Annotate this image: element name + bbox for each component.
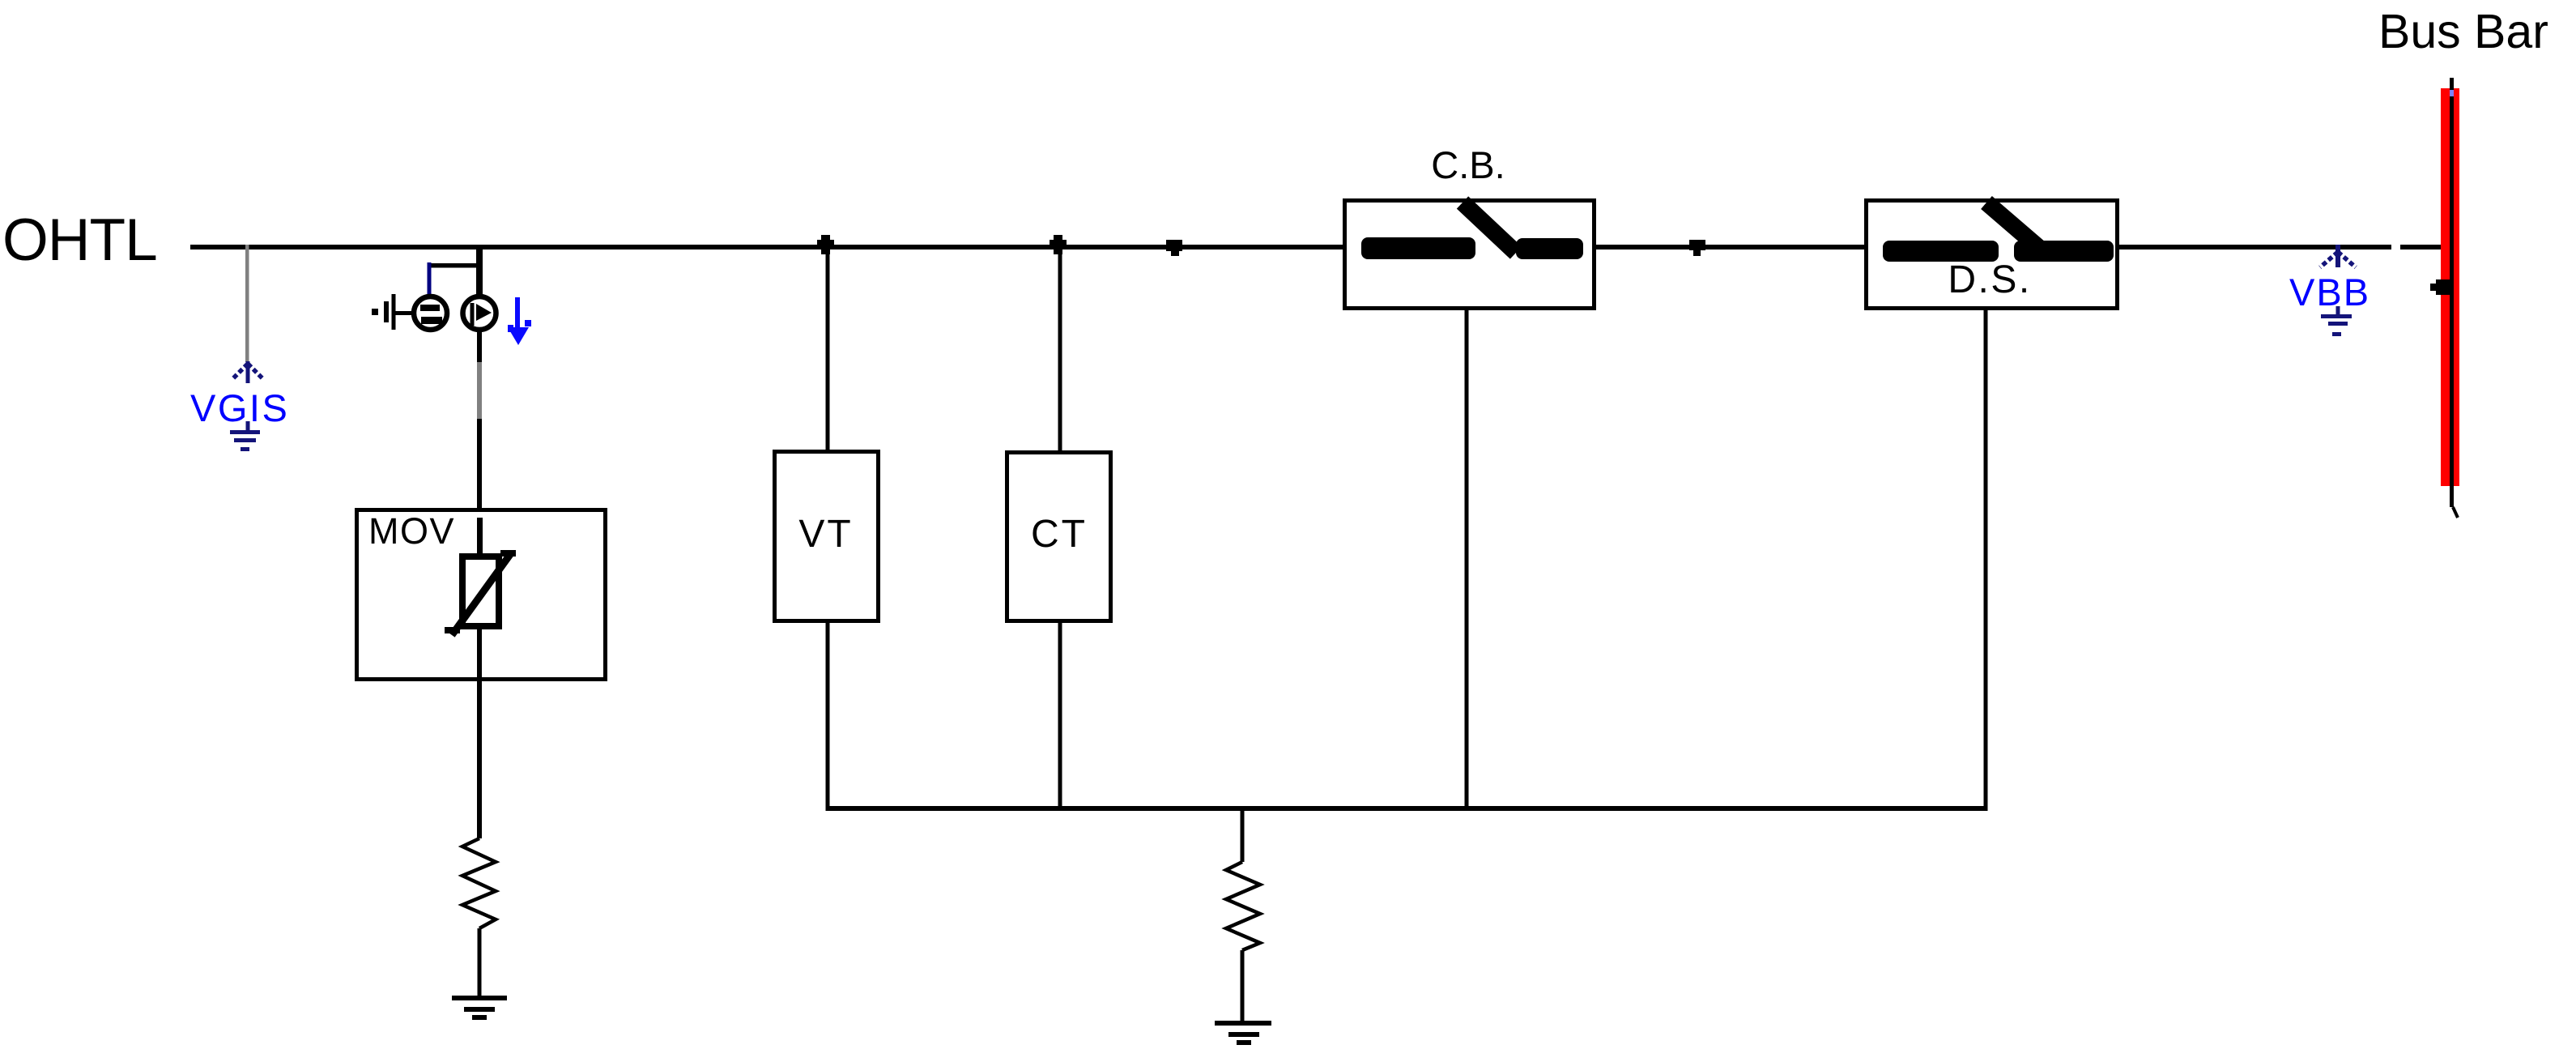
- switch left contact bar: [1883, 241, 1999, 262]
- ground small at VGIS probe: [230, 421, 260, 451]
- svg-text:OHTL: OHTL: [2, 207, 157, 273]
- box surge arrester MOV: [357, 510, 606, 680]
- wire gray dropper to VGIS probe: [245, 245, 249, 362]
- probe arrow VGIS: [232, 361, 263, 383]
- wire into MOV box: [477, 419, 482, 508]
- sensor circle right (probe symbol): [463, 296, 496, 330]
- switch right contact bar: [2014, 241, 2114, 262]
- svg-text:D.S.: D.S.: [1948, 258, 2031, 301]
- box current transformer CT: [1007, 453, 1111, 621]
- svg-text:VT: VT: [798, 513, 853, 556]
- svg-text:C.B.: C.B.: [1431, 143, 1505, 186]
- box circuit breaker C.B.: [1345, 201, 1595, 309]
- bus bar top speck: [2450, 90, 2454, 96]
- probe arrow VBB: [2320, 245, 2356, 267]
- breaker right contact bar: [1516, 238, 1583, 259]
- svg-text:VBB: VBB: [2289, 271, 2370, 313]
- wire segment between C.B. and D.S. boxes: [1596, 245, 1864, 250]
- svg-text:MOV: MOV: [368, 510, 455, 552]
- wire C.B. to bottom bus: [1465, 310, 1469, 806]
- junction node at CT tap: [1054, 235, 1062, 254]
- breaker blade diagonal: [1463, 203, 1516, 253]
- sensor circle right inner mark: [470, 303, 475, 326]
- wire branch horizontal of sensor group: [428, 263, 481, 268]
- wire CT to bottom bus: [1058, 623, 1062, 808]
- bus bar center line: [2450, 78, 2454, 507]
- wire segment from D.S. box toward bus bar: [2119, 245, 2391, 250]
- capacitor plates to left of sensor: [372, 294, 411, 330]
- ground under earthing resistor: [1215, 1021, 1271, 1045]
- wire below sensor gray segment: [477, 362, 482, 419]
- wire resistor to ground: [478, 928, 482, 997]
- flow arrow marker on wire before D.S.: [1689, 240, 1705, 250]
- wire main bus segment from OHTL to C.B. box: [190, 245, 1343, 250]
- wire short segment joining Bus Bar: [2400, 245, 2455, 250]
- wire VT to bottom bus: [826, 623, 830, 808]
- svg-text:CT: CT: [1031, 513, 1088, 556]
- svg-text:Bus Bar: Bus Bar: [2378, 5, 2548, 58]
- current arrow blue down: [508, 297, 531, 345]
- wire dropper to CT: [1058, 247, 1062, 451]
- varistor body rectangle: [462, 557, 499, 626]
- flow arrow marker on wire before C.B.: [1166, 240, 1182, 251]
- switch blade diagonal: [1986, 203, 2039, 248]
- resistor R-earth zigzag: [1226, 862, 1260, 950]
- varistor bottom lead: [477, 629, 482, 838]
- sensor circle left (source symbol): [414, 296, 447, 330]
- resistor R-mov zigzag: [462, 838, 496, 928]
- junction node at VT tap: [821, 235, 830, 254]
- box voltage transformer VT: [775, 452, 879, 621]
- bus bar red body: [2441, 88, 2459, 486]
- wire below sensor black: [477, 331, 482, 362]
- wire D.S. to bottom bus: [1984, 310, 1988, 806]
- ground under MOV resistor: [452, 996, 507, 1020]
- junction marker at bus bar: [2436, 279, 2453, 295]
- svg-text:VGIS: VGIS: [190, 386, 289, 429]
- wire navy control lead of sensor: [428, 262, 432, 295]
- varistor top lead: [477, 518, 483, 555]
- wire earthing resistor to ground: [1241, 950, 1245, 1021]
- varistor slash: [452, 553, 511, 635]
- wire bottom bus to earthing resistor: [1241, 811, 1245, 862]
- wire bottom earthing bus: [826, 806, 1988, 811]
- wire vertical from main bus to sensor U1: [476, 247, 483, 296]
- wire dropper to VT: [826, 247, 830, 451]
- sensor circle left inner bars: [420, 305, 440, 311]
- ground small at VBB probe: [2321, 306, 2352, 336]
- breaker left contact bar: [1361, 237, 1475, 259]
- box disconnect switch D.S.: [1867, 201, 2118, 309]
